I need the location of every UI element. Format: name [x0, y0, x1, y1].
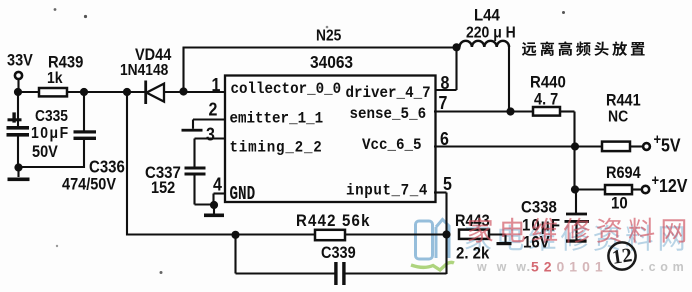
svg-text:34063: 34063: [310, 52, 353, 72]
watermark big blue characters: [465, 224, 491, 250]
resistor R443 2.2k: [459, 230, 489, 239]
pin 4: [213, 175, 222, 195]
wire pin6 row: [434, 145, 575, 147]
svg-text:C336: C336: [89, 156, 125, 177]
terminal +12V: [632, 188, 641, 190]
inductor L44 220uH: [460, 41, 510, 47]
svg-text:w w w: w w w: [476, 260, 529, 274]
resistor R441 NC: [575, 145, 603, 147]
wire pin2 open stub: [193, 118, 225, 120]
wire L44 right side down to pin7 row: [508, 46, 510, 112]
resistor R694 10: [575, 188, 606, 190]
watermark url www.520101.com: [476, 260, 529, 274]
node junction VD44 anode / bottom rail: [123, 88, 131, 96]
svg-text:. c o m: . c o m: [641, 260, 685, 274]
ground symbol (C338): [566, 239, 587, 242]
pin 1: [212, 75, 221, 95]
pin name driver_4_7: [346, 85, 431, 102]
label C337: [145, 164, 181, 182]
pin name input_7_4: [346, 183, 428, 200]
wire +5V node down to +12V node: [573, 147, 575, 191]
svg-text:50V: 50V: [32, 143, 58, 161]
svg-text:N25: N25: [316, 28, 341, 45]
watermark pink site name: [468, 217, 493, 242]
label 10uF (C338): [522, 217, 561, 235]
pin name collector_0_0: [231, 81, 342, 98]
node junction bottom rail / C339 left: [231, 231, 239, 239]
wire pin5 stub and riser: [434, 191, 447, 193]
svg-text:input_7_4: input_7_4: [346, 183, 428, 200]
svg-text:10μF: 10μF: [31, 124, 70, 142]
svg-text:3: 3: [206, 125, 215, 145]
watermark blue logo (open book): [416, 220, 450, 260]
node junction R439/C336: [80, 88, 88, 96]
svg-text:sense_5_6: sense_5_6: [350, 106, 427, 123]
pin name timing_2_2: [230, 140, 323, 157]
svg-text:220 μ H: 220 μ H: [466, 24, 516, 42]
node GND junction pin4/C337: [210, 201, 218, 209]
svg-text:2: 2: [209, 100, 218, 120]
capacitor C336: [83, 92, 85, 131]
wire pin7 row: [434, 110, 534, 112]
label +12V: [652, 171, 660, 188]
wire N25 top run: [183, 46, 458, 48]
capacitor C335 (polarized): [17, 92, 19, 127]
wire C339 branch left: [234, 235, 236, 274]
svg-text:1k: 1k: [47, 69, 63, 87]
svg-text:0101: 0101: [557, 259, 608, 275]
svg-text:12V: 12V: [659, 176, 688, 196]
svg-text:R442 56k: R442 56k: [296, 212, 371, 230]
pin name sense_5_6: [350, 106, 427, 123]
pin name Vcc_6_5: [362, 137, 422, 154]
wire left vertical down to bottom rail: [126, 92, 128, 236]
pin 2: [209, 100, 218, 120]
wire N25 riser: [182, 47, 184, 92]
pin 8: [441, 73, 450, 93]
node junction +12V row: [571, 185, 579, 193]
svg-text:10μF: 10μF: [522, 217, 561, 235]
label C336: [89, 156, 125, 177]
svg-text:5V: 5V: [661, 136, 681, 156]
pin 5: [443, 174, 452, 194]
svg-text:C338: C338: [521, 199, 557, 217]
label C338: [521, 199, 557, 217]
label 33V: [7, 52, 33, 70]
pin name GND: [230, 184, 256, 205]
node ground junction C335/C336: [14, 163, 22, 171]
svg-text:152: 152: [151, 179, 175, 197]
label NC: [608, 108, 628, 126]
capacitor C338 10uF 16V: [575, 190, 577, 214]
resistor R442 56k: [315, 230, 345, 240]
svg-text:+: +: [652, 171, 660, 188]
node junction N25/L44: [452, 43, 460, 51]
svg-text:GND: GND: [230, 184, 256, 205]
svg-text:.: .: [527, 259, 531, 274]
svg-text:+: +: [654, 130, 662, 147]
node junction pin7/L44: [506, 107, 514, 115]
label L44: [474, 7, 500, 25]
note: place away from tuner (Chinese): [522, 42, 537, 56]
svg-text:timing_2_2: timing_2_2: [230, 140, 323, 157]
wire 33V terminal to main rail: [17, 80, 19, 93]
svg-text:5: 5: [443, 174, 452, 194]
svg-text:6: 6: [440, 129, 449, 149]
wire C336 bottom to ground junction: [19, 166, 85, 168]
svg-text:8: 8: [441, 73, 450, 93]
ground symbol (C335/C336): [17, 168, 19, 178]
label R440: [530, 74, 566, 92]
svg-text:12: 12: [611, 244, 634, 269]
capacitor C337 152: [185, 167, 206, 170]
wire bottom rail: [127, 233, 447, 235]
svg-text:33V: 33V: [7, 52, 33, 70]
pin 6: [440, 129, 449, 149]
label R443: [455, 212, 490, 230]
svg-text:emitter_1_1: emitter_1_1: [230, 111, 324, 128]
label R694: [606, 164, 641, 182]
svg-text:7: 7: [439, 93, 448, 113]
label N25: [316, 28, 341, 45]
label 34063: [310, 52, 353, 72]
svg-text:R440: R440: [530, 74, 566, 92]
terminal +5V: [629, 145, 643, 147]
svg-text:collector_0_0: collector_0_0: [231, 81, 342, 98]
svg-text:4. 7: 4. 7: [534, 91, 558, 109]
wire pin3 stub to C337: [195, 137, 226, 139]
label 2.2k: [456, 245, 489, 263]
svg-text:52: 52: [531, 259, 557, 275]
node 33V terminal: [15, 72, 22, 79]
node junction R443 / pin5 / C339 right: [442, 230, 450, 238]
ground symbol (IC pin4): [213, 205, 215, 214]
node junction N25 riser: [179, 87, 187, 95]
label +5V: [654, 130, 662, 147]
node junction 33V/C335: [14, 88, 22, 96]
svg-text:NC: NC: [608, 108, 628, 126]
label 10uF (C335): [31, 124, 70, 142]
label 4.7: [534, 91, 558, 109]
wire R440 to +5V node: [559, 110, 575, 112]
resistor R439: [39, 88, 67, 96]
label C339: [321, 244, 356, 262]
wire diode cathode to IC pin1: [165, 91, 226, 93]
label VD44: [135, 46, 172, 64]
watermark circled 12: [608, 242, 635, 269]
label 220uH: [466, 24, 516, 42]
svg-text:474/50V: 474/50V: [62, 176, 117, 194]
resistor R440 4.7: [533, 107, 560, 116]
wire pin4 GND stub: [214, 192, 226, 194]
wire pin8 stub and riser: [434, 89, 457, 91]
svg-text:L44: L44: [474, 7, 500, 25]
wire main rail left segment: [16, 91, 145, 93]
node junction +5V row: [571, 142, 579, 150]
label R442 56k: [296, 212, 371, 230]
svg-text:R694: R694: [606, 164, 641, 182]
label 16V: [523, 234, 550, 252]
svg-text:1N4148: 1N4148: [120, 62, 168, 79]
label 1k: [47, 69, 63, 87]
svg-text:1: 1: [212, 75, 221, 95]
diode VD44 1N4148: [147, 84, 165, 102]
svg-text:driver_4_7: driver_4_7: [346, 85, 431, 102]
IC U1 34063 box: [225, 76, 436, 203]
scan specks: [84, 15, 87, 18]
wire R443 open end: [489, 233, 506, 235]
svg-text:4: 4: [213, 175, 222, 195]
svg-text:10: 10: [611, 195, 628, 213]
label 1N4148: [120, 62, 168, 79]
pin 3: [206, 125, 215, 145]
wire C339 branch right: [345, 272, 447, 274]
svg-text:C339: C339: [321, 244, 356, 262]
label 152: [151, 179, 175, 197]
capacitor C339: [334, 262, 337, 285]
label R439: [48, 54, 84, 72]
label 10: [611, 195, 628, 213]
label C335: [35, 108, 68, 125]
pin name emitter_1_1: [230, 111, 324, 128]
svg-text:16V: 16V: [523, 234, 550, 252]
label R441: [606, 92, 641, 110]
svg-text:C335: C335: [35, 108, 68, 125]
label 50V: [32, 143, 58, 161]
pin 7: [439, 93, 448, 113]
label 474/50V: [62, 176, 117, 194]
svg-text:Vcc_6_5: Vcc_6_5: [362, 137, 422, 154]
